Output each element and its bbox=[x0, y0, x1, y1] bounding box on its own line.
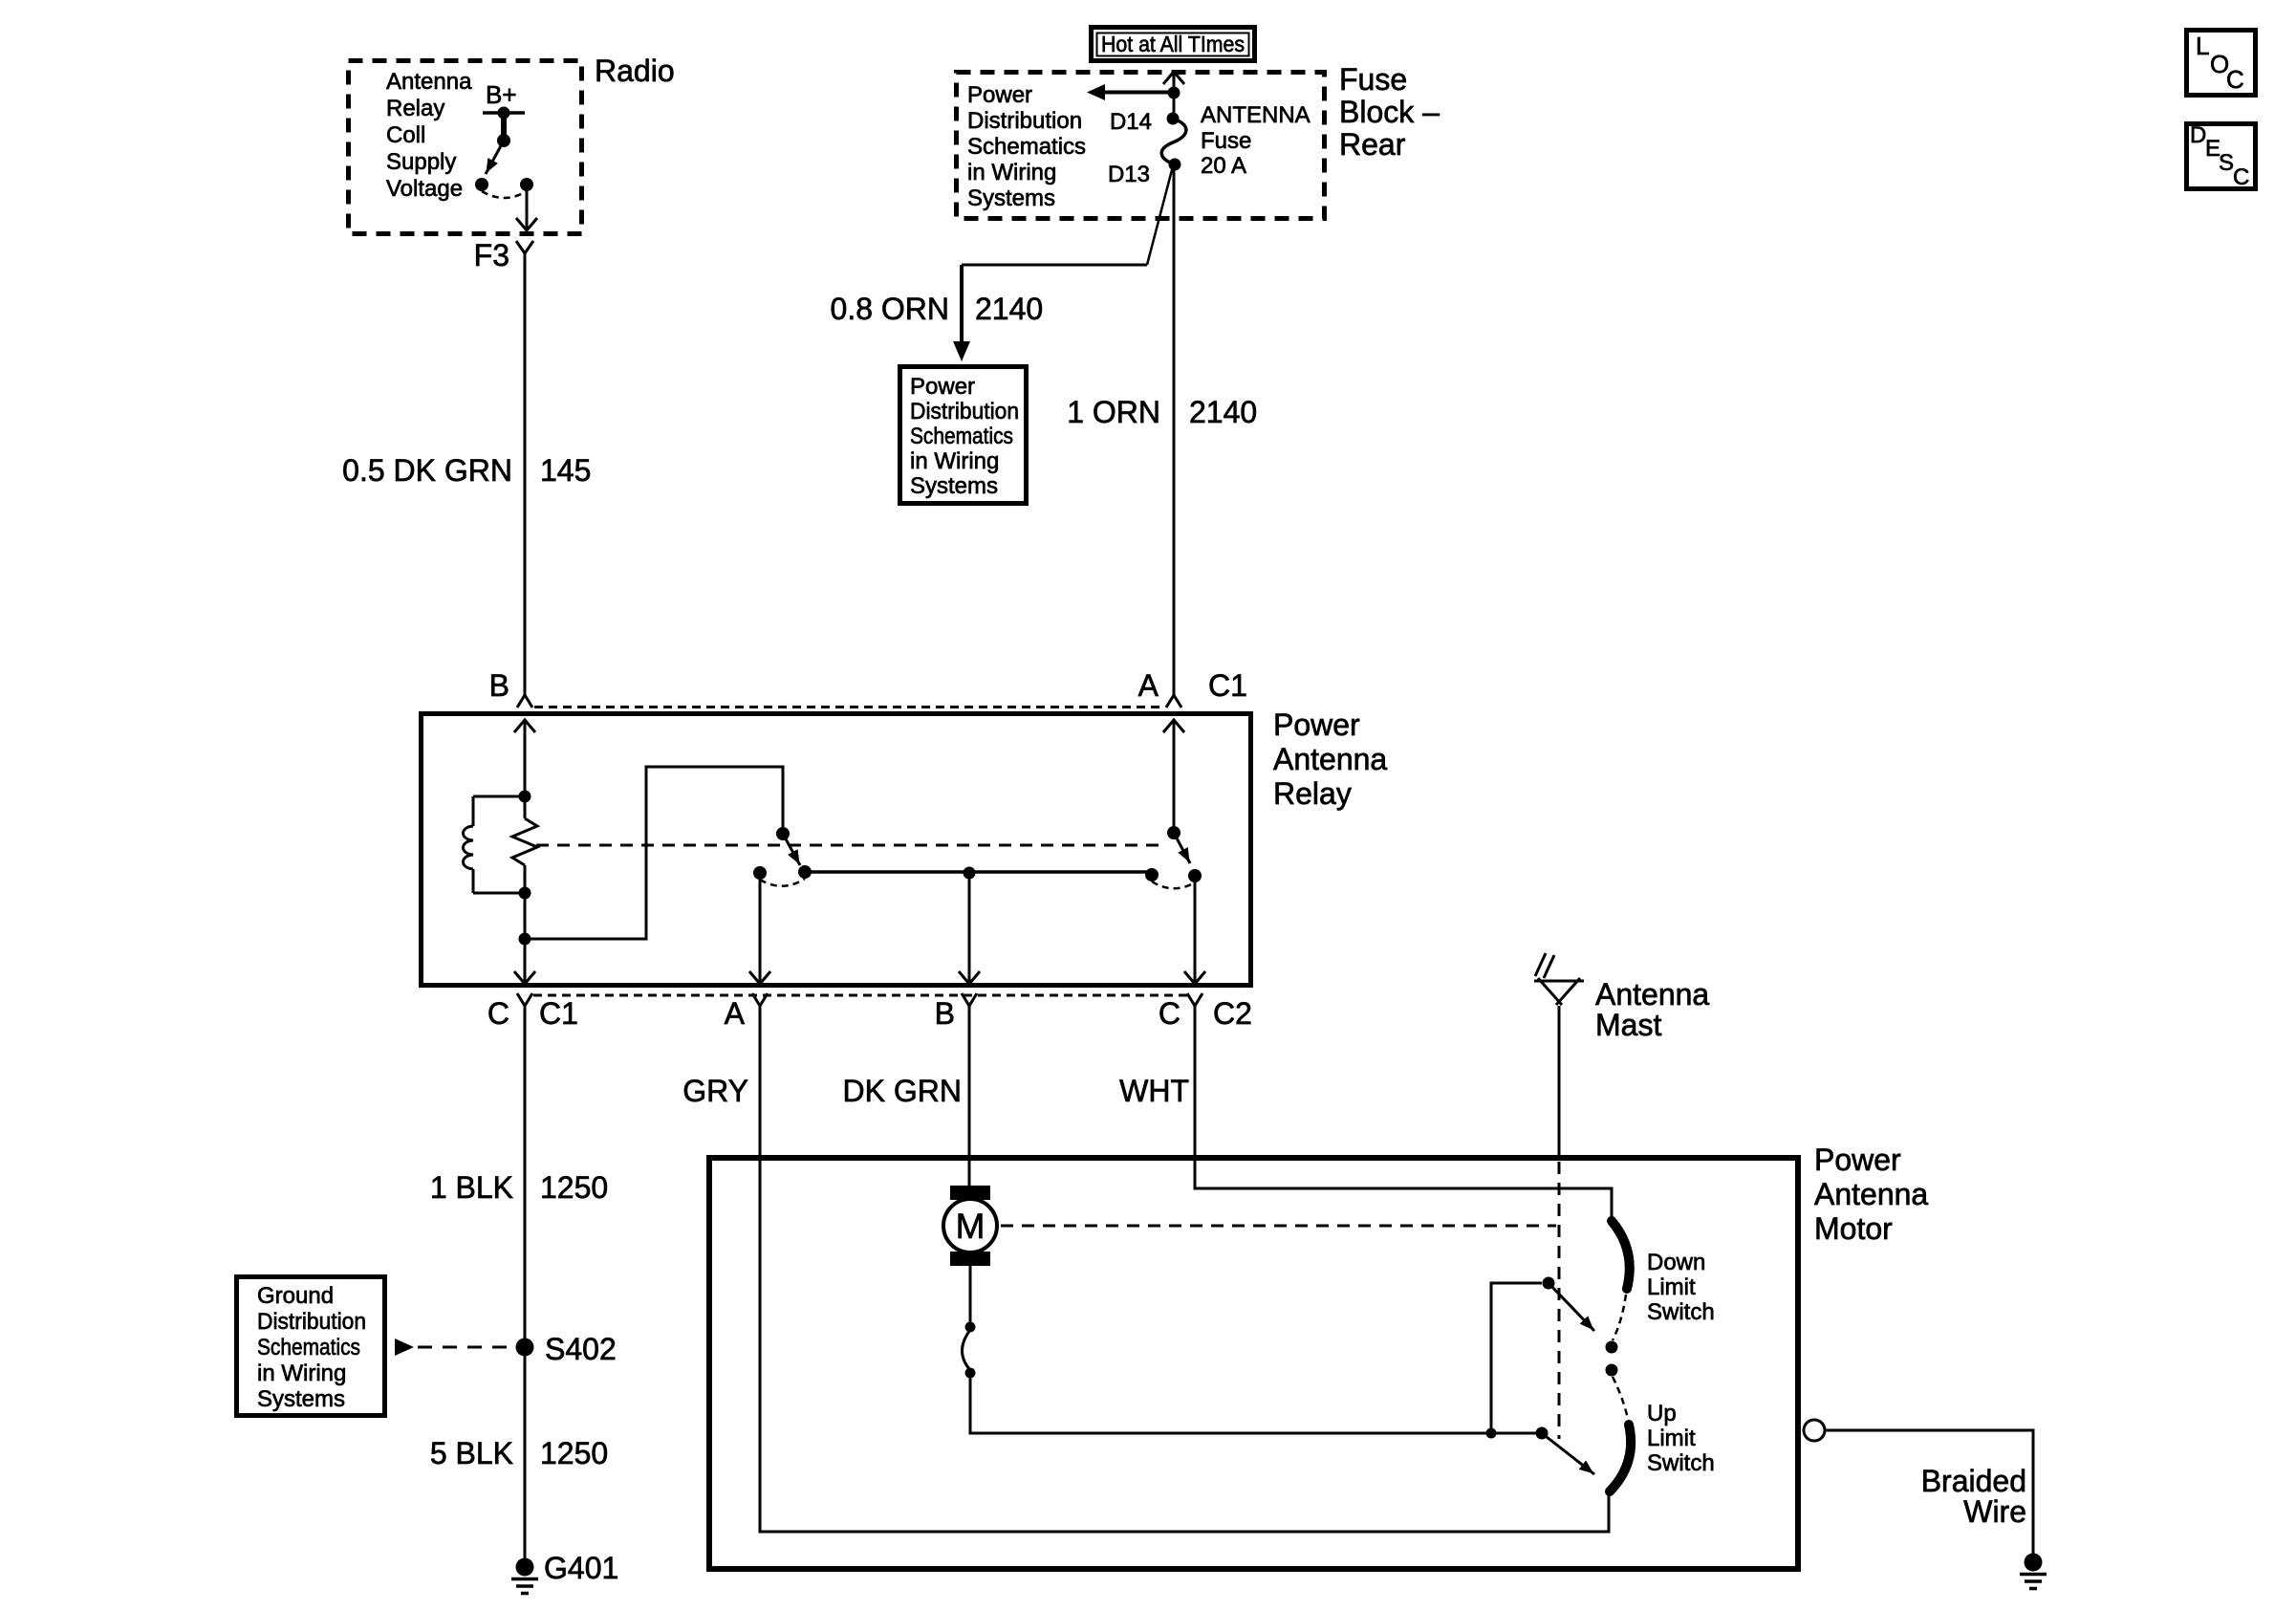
wire WHT (relay C2 to motor) bbox=[1195, 1006, 1612, 1220]
svg-text:Fuse: Fuse bbox=[1339, 62, 1407, 97]
up limit switch arc (thick) bbox=[1610, 1425, 1631, 1491]
svg-text:Power: Power bbox=[967, 82, 1032, 108]
svg-text:Antenna: Antenna bbox=[1595, 977, 1709, 1012]
power antenna relay box bbox=[422, 714, 1251, 986]
wire to power distribution (left arrow) bbox=[1102, 91, 1174, 95]
svg-text:ANTENNA: ANTENNA bbox=[1201, 102, 1310, 128]
down limit switch arc (thick) bbox=[1612, 1221, 1630, 1289]
svg-text:1250: 1250 bbox=[540, 1170, 608, 1205]
svg-text:Mast: Mast bbox=[1595, 1008, 1661, 1042]
svg-text:Power: Power bbox=[1814, 1143, 1901, 1177]
svg-text:Relay: Relay bbox=[386, 96, 444, 121]
node relay output junction dot bbox=[519, 933, 531, 946]
svg-text:C: C bbox=[1159, 996, 1180, 1031]
motor M1 brush caps bbox=[950, 1186, 990, 1200]
svg-text:Coll: Coll bbox=[386, 122, 425, 148]
wire pin B down through relay with arrows bbox=[524, 721, 527, 983]
svg-text:Distribution: Distribution bbox=[257, 1309, 366, 1335]
svg-text:1 BLK: 1 BLK bbox=[430, 1170, 513, 1205]
fuse F1 ANTENNA 20A element (S-curve) bbox=[1161, 119, 1186, 164]
svg-text:Fuse: Fuse bbox=[1201, 128, 1251, 154]
connector fork pin B bottom bbox=[962, 993, 977, 1006]
svg-text:B: B bbox=[935, 996, 955, 1031]
node coil top dot bbox=[519, 791, 531, 803]
svg-text:0.8 ORN: 0.8 ORN bbox=[831, 292, 949, 326]
motor actuation dashed line bbox=[1001, 1225, 1556, 1228]
svg-text:Up: Up bbox=[1647, 1401, 1677, 1426]
svg-text:C1: C1 bbox=[539, 996, 578, 1031]
node coil bottom dot bbox=[519, 887, 531, 900]
svg-text:Wire: Wire bbox=[1963, 1494, 2026, 1529]
wire breaker to limit switch pivots bbox=[970, 1373, 1536, 1433]
wire common bar between switches bbox=[805, 870, 1152, 874]
fuse block rear box (dashed) bbox=[957, 73, 1325, 219]
wire GRY (relay A to motor) bbox=[760, 1006, 1609, 1532]
wire B+ bar bbox=[483, 111, 525, 115]
svg-text:C: C bbox=[2233, 164, 2249, 190]
svg-text:Schematics: Schematics bbox=[910, 424, 1013, 449]
wire 1 BLK 1250 (relay C1 to S402) bbox=[524, 1006, 527, 1558]
svg-text:Voltage: Voltage bbox=[386, 176, 463, 202]
wire pin C2 down with arrow bbox=[1194, 876, 1197, 983]
svg-text:Rear: Rear bbox=[1339, 127, 1406, 162]
wire 1 ORN 2140 (fuse to relay pin A) bbox=[1173, 164, 1176, 695]
switch alternate position dashed arc bbox=[482, 191, 527, 198]
wire switch stem bbox=[501, 113, 507, 141]
svg-text:Power: Power bbox=[1273, 708, 1360, 742]
connector fork pin B bbox=[517, 695, 532, 708]
svg-text:Braided: Braided bbox=[1921, 1464, 2026, 1498]
wire braided ground wire bbox=[1825, 1430, 2033, 1555]
limit switch actuation dashed line (vertical) bbox=[1558, 1162, 1561, 1439]
wire motor to breaker bbox=[969, 1266, 972, 1324]
svg-text:Supply: Supply bbox=[386, 149, 456, 175]
node left switch pivot dot bbox=[776, 827, 790, 840]
svg-text:in Wiring: in Wiring bbox=[967, 160, 1056, 185]
connector fork pin C bottom bbox=[517, 993, 532, 1006]
svg-text:Down: Down bbox=[1647, 1250, 1705, 1275]
svg-text:Hot at All TImes: Hot at All TImes bbox=[1101, 32, 1245, 56]
wire pin A down with arrow bbox=[759, 873, 762, 983]
node left contact bbox=[475, 178, 488, 191]
switch alternate position dashed arc bbox=[1152, 882, 1195, 888]
motor M1 body circle bbox=[943, 1199, 997, 1252]
wire up arrow to hot at all times bbox=[1173, 73, 1176, 93]
circuit breaker CB (thermal limiter) bbox=[965, 1322, 976, 1333]
node fuse top dot D14 bbox=[1167, 113, 1180, 125]
node right contact bbox=[520, 178, 533, 191]
svg-text:S: S bbox=[2219, 150, 2234, 176]
svg-text:in Wiring: in Wiring bbox=[257, 1361, 346, 1386]
node limit junction dot bbox=[1486, 1428, 1497, 1439]
switch left relay arm bbox=[783, 834, 800, 865]
wire from contact down with arrow bbox=[526, 185, 529, 229]
svg-text:Limit: Limit bbox=[1647, 1274, 1696, 1300]
svg-text:GRY: GRY bbox=[682, 1074, 748, 1108]
svg-text:D14: D14 bbox=[1110, 109, 1152, 135]
up limit dashed arc bbox=[1613, 1377, 1628, 1419]
node right switch right contact bbox=[1188, 869, 1202, 882]
svg-text:S402: S402 bbox=[545, 1332, 617, 1366]
svg-text:C1: C1 bbox=[1208, 668, 1247, 703]
ground (braided wire) bbox=[2025, 1554, 2043, 1572]
svg-text:2140: 2140 bbox=[1189, 395, 1257, 429]
svg-text:Antenna: Antenna bbox=[1814, 1177, 1928, 1211]
svg-text:Antenna: Antenna bbox=[1273, 742, 1387, 776]
DESC reference box bbox=[2187, 124, 2256, 189]
svg-text:B: B bbox=[489, 668, 509, 703]
svg-text:Power: Power bbox=[910, 374, 975, 400]
svg-text:WHT: WHT bbox=[1119, 1074, 1189, 1108]
node up limit contact dot bbox=[1606, 1364, 1618, 1377]
node left switch left contact bbox=[753, 866, 767, 880]
svg-text:Systems: Systems bbox=[967, 185, 1055, 211]
wire coil to left switch pivot bbox=[525, 767, 783, 939]
svg-text:Ground: Ground bbox=[257, 1283, 334, 1309]
svg-text:C2: C2 bbox=[1213, 996, 1252, 1031]
svg-text:M: M bbox=[956, 1207, 986, 1246]
svg-text:Relay: Relay bbox=[1273, 776, 1352, 811]
svg-text:Switch: Switch bbox=[1647, 1450, 1715, 1476]
svg-text:Schematics: Schematics bbox=[257, 1335, 360, 1361]
Hot at All Times box bbox=[1092, 28, 1255, 61]
node B+ junction dot bbox=[498, 107, 510, 120]
wire 0.8 ORN 2140 drop with arrow bbox=[960, 265, 964, 342]
node left switch right contact bbox=[798, 865, 812, 879]
connector C1 dashed line (relay top) bbox=[534, 706, 1164, 708]
relay coil K1 (parallel branch) bbox=[473, 796, 525, 893]
svg-text:Distribution: Distribution bbox=[910, 399, 1019, 425]
wire junction to down pivot bbox=[1491, 1283, 1542, 1433]
connector fork pin C2 bottom bbox=[1187, 993, 1202, 1006]
svg-text:5 BLK: 5 BLK bbox=[430, 1436, 513, 1470]
power distribution schematics box bbox=[900, 367, 1027, 504]
switch down limit arm bbox=[1549, 1283, 1594, 1331]
node up limit pivot dot bbox=[1536, 1427, 1549, 1440]
svg-text:Antenna: Antenna bbox=[386, 69, 472, 95]
svg-text:Distribution: Distribution bbox=[967, 108, 1082, 134]
svg-text:1250: 1250 bbox=[540, 1436, 608, 1470]
svg-text:Switch: Switch bbox=[1647, 1299, 1715, 1325]
node fuse bottom dot D13 bbox=[1169, 159, 1181, 171]
down limit dashed arc bbox=[1613, 1295, 1626, 1340]
resistor R1 (relay coil resistor) bbox=[512, 818, 537, 865]
svg-text:D13: D13 bbox=[1108, 162, 1150, 187]
svg-text:Radio: Radio bbox=[595, 54, 675, 88]
svg-text:in Wiring: in Wiring bbox=[910, 448, 999, 474]
svg-text:A: A bbox=[725, 996, 746, 1031]
wire branch horizontal bbox=[962, 264, 1147, 267]
wire node to fuse bbox=[1173, 93, 1176, 119]
wire 0.5 DK GRN 145 (radio to relay) bbox=[524, 253, 527, 695]
splice S402 dot bbox=[516, 1339, 534, 1357]
power antenna motor box bbox=[709, 1158, 1798, 1569]
svg-text:C: C bbox=[2226, 65, 2244, 94]
node right switch left contact bbox=[1145, 868, 1159, 882]
svg-text:C: C bbox=[487, 996, 509, 1031]
connector F3 fork bbox=[516, 241, 533, 253]
svg-text:0.5 DK GRN: 0.5 DK GRN bbox=[342, 453, 512, 488]
node pin B junction dot bbox=[964, 867, 976, 880]
connector fork pin A bottom bbox=[752, 993, 768, 1006]
svg-text:20 A: 20 A bbox=[1201, 153, 1246, 179]
switch up limit arm bbox=[1542, 1433, 1594, 1474]
LOC reference box bbox=[2187, 31, 2256, 96]
svg-text:Systems: Systems bbox=[257, 1386, 345, 1412]
switch alternate position dashed arc bbox=[760, 879, 805, 886]
svg-text:D: D bbox=[2190, 122, 2206, 148]
wire pin B down with arrow bbox=[968, 873, 971, 983]
node down limit contact dot bbox=[1606, 1341, 1618, 1354]
node switch pivot dot bbox=[497, 134, 510, 147]
wire DK GRN (relay B to motor) bbox=[968, 1006, 971, 1187]
wire pin A (1 ORN) down to right switch pivot with arrow bbox=[1173, 721, 1176, 833]
svg-text:F3: F3 bbox=[474, 238, 509, 272]
ground G401 bbox=[516, 1558, 534, 1577]
wire branch slant from D13 bbox=[1147, 166, 1173, 265]
svg-text:1 ORN: 1 ORN bbox=[1067, 395, 1160, 429]
connector fork pin A bbox=[1166, 695, 1181, 708]
svg-text:B+: B+ bbox=[486, 80, 517, 109]
relay actuation dashed line bbox=[536, 844, 1166, 847]
wire dashed to splice S402 with arrow bbox=[395, 1339, 414, 1356]
switch S1 arm (radio antenna relay supply switch) bbox=[486, 141, 504, 174]
svg-text:Systems: Systems bbox=[910, 473, 998, 499]
svg-text:2140: 2140 bbox=[975, 292, 1043, 326]
node down limit pivot dot bbox=[1543, 1277, 1555, 1290]
connector C1 dashed line (relay bottom) bbox=[533, 994, 1187, 997]
radio box (dashed) bbox=[349, 61, 582, 234]
svg-text:Block –: Block – bbox=[1339, 95, 1440, 129]
svg-text:Motor: Motor bbox=[1814, 1211, 1893, 1246]
ground distribution schematics box bbox=[237, 1277, 385, 1416]
node right switch pivot dot bbox=[1167, 826, 1180, 839]
svg-text:Schematics: Schematics bbox=[967, 134, 1086, 160]
braided wire terminal circle bbox=[1804, 1420, 1825, 1441]
svg-text:DK GRN: DK GRN bbox=[843, 1074, 962, 1108]
svg-text:L: L bbox=[2196, 32, 2209, 60]
switch right relay arm bbox=[1174, 833, 1190, 863]
node junction dot above fuse bbox=[1168, 87, 1180, 99]
svg-text:145: 145 bbox=[540, 453, 591, 488]
svg-text:G401: G401 bbox=[544, 1551, 618, 1585]
antenna mast symbol bbox=[1558, 1006, 1561, 1158]
svg-text:A: A bbox=[1138, 668, 1159, 703]
svg-text:Limit: Limit bbox=[1647, 1426, 1696, 1451]
